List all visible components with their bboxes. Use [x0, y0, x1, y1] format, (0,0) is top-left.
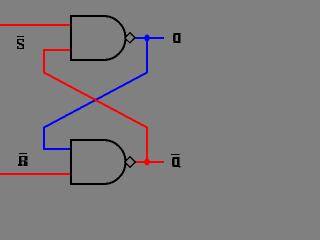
wire red feedback from Qbar node up-left into U1 input: [44, 50, 147, 162]
wire red Qbar output segment: [136, 161, 165, 163]
wire blue Q output segment: [136, 37, 165, 39]
wire blue feedback from Q node down-left into U2 input: [44, 38, 147, 149]
NAND gate U1 body: [71, 16, 126, 60]
label Qbar output with overline: [171, 154, 181, 168]
wire red S input: [0, 24, 71, 26]
label R with overline (Rbar input): [18, 153, 28, 166]
NAND gate U2 body: [71, 140, 126, 184]
wire red R input: [0, 173, 71, 175]
node Qbar junction dot: [144, 159, 149, 166]
NAND gate U1 inversion diamond: [125, 33, 135, 43]
label Q output: [173, 33, 181, 43]
label S with overline (Sbar input): [17, 36, 24, 49]
node Q junction dot: [144, 35, 149, 42]
NAND gate U2 inversion diamond: [125, 157, 135, 167]
